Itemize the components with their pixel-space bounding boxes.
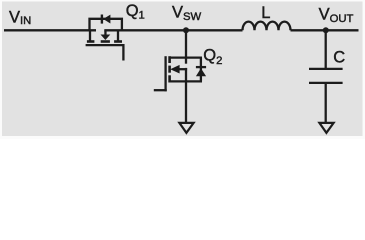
capacitor C top plate bbox=[309, 68, 343, 70]
transistor Q1 channel contact bars bbox=[87, 40, 122, 43]
diode D1 arrow triangle bbox=[103, 15, 110, 24]
transistor Q1 source lead bbox=[117, 30, 119, 41]
transistor Q1 body-arrow shaft bbox=[104, 30, 106, 35]
transistor Q2 body arrow head bbox=[170, 65, 179, 74]
transistor Q1 body arrow head bbox=[101, 35, 111, 41]
grey canvas background bbox=[0, 0, 365, 139]
diode D2 vertical lead bbox=[200, 58, 202, 82]
inductor L winding bbox=[243, 22, 291, 31]
wire rail from inductor to VOUT right end bbox=[291, 29, 359, 31]
ground symbol under Q2 bbox=[179, 123, 193, 133]
transistor Q2 body-arrow lead bbox=[180, 68, 188, 70]
wire capacitor down to ground bbox=[325, 83, 327, 122]
capacitor C bottom plate bbox=[309, 82, 343, 84]
transistor Q1 drain lead bbox=[89, 30, 91, 41]
wire VOUT down to capacitor bbox=[325, 30, 327, 69]
transistor Q2 drain lead bbox=[170, 56, 202, 58]
wire Q2 source down to ground bbox=[185, 68, 187, 122]
wire rail from Q1 source to inductor (through VSW node) bbox=[104, 29, 242, 31]
svg-text:L: L bbox=[261, 4, 270, 22]
wire VIN rail (left segment to Q1 drain stub) bbox=[4, 29, 96, 31]
ground symbol under C bbox=[319, 123, 333, 133]
node VSW junction dot bbox=[183, 27, 189, 33]
diode D2 arrow triangle bbox=[196, 68, 206, 76]
diode D2 cathode bar bbox=[196, 66, 206, 68]
node VOUT junction dot bbox=[323, 27, 329, 33]
transistor Q2 gate line and lead bbox=[164, 56, 166, 91]
transistor Q2 channel contact bars bbox=[168, 56, 171, 82]
diode D1 cathode bar bbox=[101, 15, 103, 24]
wire VSW down to Q2 drain bbox=[185, 30, 187, 63]
svg-text:C: C bbox=[333, 48, 345, 66]
transistor Q1 body-diode loop bbox=[90, 19, 122, 31]
transistor Q2 source lead bbox=[170, 80, 202, 82]
transistor Q1 gate line and lead bbox=[86, 45, 124, 60]
